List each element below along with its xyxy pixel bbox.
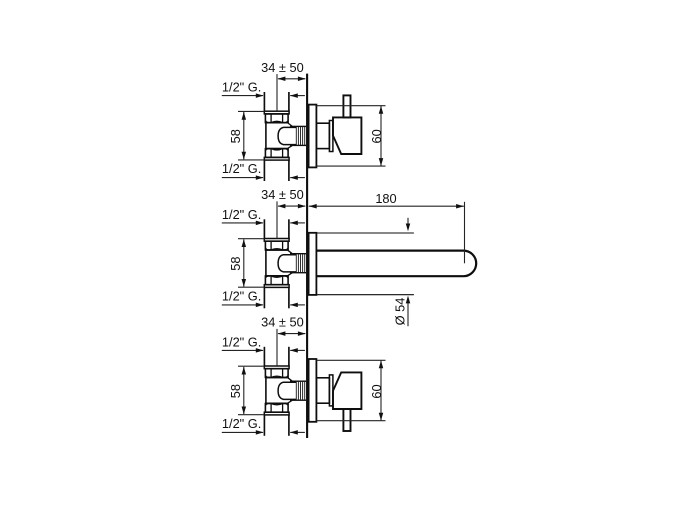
unit 1 cartridge collar [316,123,329,148]
unit 3 pipe flange top [264,366,289,369]
arrow tip lower wall-side unit 3 [290,430,298,435]
unit 3 pipe flange bottom [264,412,289,415]
label 1/2" G. lower (unit 1) [222,161,263,177]
unit 2 wall plate (edge view) [309,233,317,295]
arrow up 60-dim unit 1 [379,106,384,114]
unit 1 lever handle body [333,117,361,154]
label 1/2" G. lower (unit 2) [222,289,263,305]
svg-text:58: 58 [228,256,243,270]
unit 2 spout base cylinder Ø54 silhouette [316,233,414,295]
arrow down 60-dim unit 3 [379,413,384,421]
unit 3 outlet dome [278,382,296,399]
svg-text:60: 60 [369,384,384,398]
unit 1 supply pipe (upper stub) [264,92,289,111]
unit 2 valve body [265,250,292,276]
arrow down 58-dim unit 2 [242,279,247,287]
dimension 180 [309,191,465,263]
arrow up 58-dim unit 1 [242,112,247,120]
label 1/2" G. lower (unit 3) [222,416,263,432]
arrow upper 1/2G unit 2 [256,221,264,226]
arrow up 58-dim unit 2 [242,239,247,247]
arrow down onto spout cylinder [406,224,411,232]
arrow left 34-dim unit 3 [278,331,286,336]
svg-text:1/2" G.: 1/2" G. [222,161,261,176]
dimension 34 ± 50 (unit 3) [261,315,305,366]
arrow right 34-dim unit 1 [298,77,306,82]
label 1/2" G. upper (unit 3) [222,334,263,350]
arrow left 180-dim [309,204,317,209]
unit 2 supply pipe (lower stub) [264,287,289,308]
arrow down 58-dim unit 3 [242,407,247,415]
wall-side pointer upper (unit 2) [290,222,305,224]
unit 3 cartridge collar [316,378,329,403]
svg-text:1/2" G.: 1/2" G. [222,416,261,431]
arrow left 34-dim unit 1 [278,77,286,82]
arrow tip upper wall-side unit 2 [290,221,298,226]
svg-text:1/2" G.: 1/2" G. [222,289,261,304]
arrow up 58-dim unit 3 [242,367,247,375]
unit 1 threaded nipple into wall [290,126,306,145]
unit 3 threaded nipple into wall [290,381,306,400]
unit 1 escutcheon plate (edge view) [309,105,317,168]
unit 1 outlet dome [278,127,296,144]
svg-text:180: 180 [375,191,396,206]
dimension Ø 54 [392,298,408,327]
unit 2 pipe flange bottom [264,285,289,288]
unit 2 spout (length 180) [316,251,476,277]
unit 3 hex nut top [265,369,288,378]
arrow upper 1/2G unit 3 [256,348,264,353]
unit 2 pipe flange top [264,239,289,242]
arrow lower 1/2G unit 2 [256,303,264,308]
arrow tip lower wall-side unit 2 [290,303,298,308]
arrow lower 1/2G unit 1 [256,175,264,180]
dimension 58 (unit 2) [228,239,264,288]
unit 1 valve body [265,123,292,149]
unit 1 hex nut bottom [265,149,288,158]
unit 2 threaded nipple into wall [290,254,306,273]
dimension 34 ± 50 (unit 1) [261,60,305,111]
arrow down 60-dim unit 1 [379,158,384,166]
wall-side pointer lower (unit 3) [290,431,305,433]
arrow lower 1/2G unit 3 [256,430,264,435]
svg-text:1/2" G.: 1/2" G. [222,80,261,95]
unit 1 handle back plate [329,121,333,152]
svg-text:34 ± 50: 34 ± 50 [261,187,304,202]
svg-text:60: 60 [369,129,384,143]
label 1/2" G. upper (unit 2) [222,207,263,223]
unit 3 lever handle body [333,372,361,409]
unit 3 lever stick [343,409,350,431]
arrow upper 1/2G unit 1 [256,93,264,98]
arrow right 180-dim [456,204,464,209]
arrow up Ø54-dim [406,296,411,304]
dimension 34 ± 50 (unit 2) [261,187,305,238]
wall-side pointer lower (unit 2) [290,304,305,306]
arrow tip lower wall-side unit 1 [290,175,298,180]
label 1/2" G. upper (unit 1) [222,80,263,96]
unit 2 supply pipe (upper stub) [264,219,289,238]
unit 2 hex nut bottom [265,276,288,285]
unit 3 hex nut bottom [265,404,288,413]
arrow right 34-dim unit 3 [298,331,306,336]
wall-side pointer upper (unit 1) [290,95,305,97]
arrow down 58-dim unit 1 [242,152,247,160]
unit 3 supply pipe (upper stub) [264,347,289,366]
unit 1 lever stick [343,95,350,117]
unit 3 escutcheon plate (edge view) [309,359,317,422]
dimension 60 (unit 3) [316,360,385,420]
wall-side pointer upper (unit 3) [290,349,305,351]
arrow up 60-dim unit 3 [379,361,384,369]
unit 1 hex nut top [265,114,288,123]
dimension 58 (unit 1) [228,111,264,159]
svg-text:34 ± 50: 34 ± 50 [261,60,304,75]
arrow tip upper wall-side unit 1 [290,93,298,98]
wall line [306,74,308,438]
pointer to spout top silhouette [407,218,409,224]
unit 2 outlet dome [278,255,296,272]
arrow left 34-dim unit 2 [278,204,286,209]
svg-text:Ø 54: Ø 54 [392,298,407,326]
dimension 60 (unit 1) [316,106,385,166]
unit 3 supply pipe (lower stub) [264,415,289,436]
unit 3 handle back plate [329,375,333,406]
svg-text:58: 58 [228,129,243,143]
arrow right 34-dim unit 2 [298,204,306,209]
svg-text:1/2" G.: 1/2" G. [222,334,261,349]
svg-text:58: 58 [228,384,243,398]
wall-side pointer lower (unit 1) [290,177,305,179]
unit 1 supply pipe (lower stub) [264,160,289,181]
unit 1 pipe flange top [264,111,289,114]
arrow tip upper wall-side unit 3 [290,348,298,353]
dimension 58 (unit 3) [228,366,264,415]
svg-text:34 ± 50: 34 ± 50 [261,315,304,330]
unit 1 pipe flange bottom [264,157,289,160]
unit 2 hex nut top [265,241,288,250]
svg-text:1/2" G.: 1/2" G. [222,207,261,222]
unit 3 valve body [265,377,292,403]
